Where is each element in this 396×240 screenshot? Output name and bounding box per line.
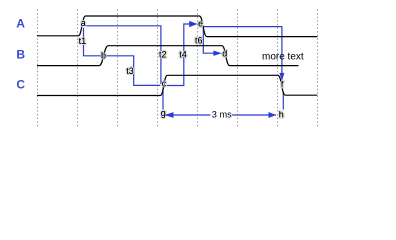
waveform B bbox=[37, 46, 299, 66]
svg-text:more text: more text bbox=[262, 52, 304, 63]
svg-text:g: g bbox=[161, 108, 166, 118]
svg-text:B: B bbox=[16, 47, 25, 61]
svg-text:C: C bbox=[16, 78, 25, 92]
c -> t4 vertical -> arrow to e bbox=[166, 24, 191, 86]
a event line -> t2 vertical -> c bbox=[84, 26, 161, 84]
svg-text:t4: t4 bbox=[179, 49, 187, 59]
svg-text:3 ms: 3 ms bbox=[212, 110, 232, 120]
t1 marker line: a -> b -> t3 corner -> c bbox=[84, 28, 161, 85]
timing diagram bbox=[0, 0, 396, 132]
svg-text:t2: t2 bbox=[159, 49, 167, 59]
arrowhead to d bbox=[213, 51, 221, 56]
svg-text:t1: t1 bbox=[79, 36, 87, 46]
e event line -> down arrow to f bbox=[203, 27, 282, 74]
arrowhead to e bbox=[189, 21, 198, 27]
waveform A bbox=[37, 16, 317, 37]
svg-text:c: c bbox=[162, 78, 167, 88]
3 ms measure line bbox=[165, 114, 276, 116]
svg-text:t3: t3 bbox=[126, 66, 134, 76]
svg-text:e: e bbox=[198, 18, 203, 28]
svg-text:A: A bbox=[16, 17, 25, 31]
h vertical below f bbox=[282, 92, 284, 109]
svg-text:t6: t6 bbox=[195, 36, 203, 46]
measure right arrowhead (h) bbox=[269, 112, 277, 118]
svg-text:d: d bbox=[222, 48, 227, 58]
svg-text:b: b bbox=[101, 51, 106, 61]
grid lines (dashed, 1 ms apart) bbox=[38, 10, 318, 127]
e -> t6 vertical -> arrow to d bbox=[203, 28, 214, 53]
svg-text:a: a bbox=[81, 18, 86, 28]
dependency arrows (blue) bbox=[84, 24, 284, 115]
measure left arrowhead (g) bbox=[164, 112, 173, 118]
svg-text:h: h bbox=[279, 109, 284, 119]
down arrowhead to f bbox=[279, 73, 284, 81]
waveform C bbox=[37, 75, 317, 95]
g vertical below c bbox=[162, 88, 164, 110]
